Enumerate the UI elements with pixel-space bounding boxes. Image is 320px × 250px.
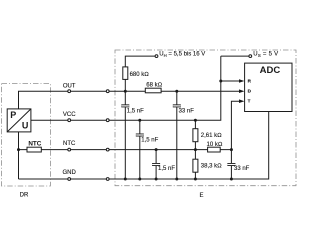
junction dots GND — [124, 178, 127, 181]
capacitor C5 33nF — [227, 164, 235, 166]
svg-text:10 kΩ: 10 kΩ — [207, 142, 223, 148]
svg-text:38,3 kΩ: 38,3 kΩ — [201, 164, 222, 170]
connector circle OUT-b — [106, 90, 109, 93]
connector circle NTC-b — [106, 148, 109, 151]
junction dots OUT — [124, 90, 127, 93]
svg-text:E: E — [199, 193, 203, 199]
wire T feed — [231, 101, 239, 179]
connector circle VCC-b — [106, 119, 109, 122]
resistor 680k — [123, 67, 128, 80]
wire cap chain 3 — [155, 150, 157, 179]
svg-text:GND: GND — [63, 170, 77, 176]
capacitor C3 1.5nF — [152, 164, 160, 166]
svg-text:NTC: NTC — [28, 141, 41, 148]
resistor 2.61k — [193, 129, 198, 142]
svg-text:680 kΩ: 680 kΩ — [130, 72, 150, 78]
svg-text:1,5 nF: 1,5 nF — [158, 166, 175, 172]
wire cap chain 1 — [124, 91, 126, 179]
wire UH supply — [125, 56, 155, 91]
capacitor C2 1.5nF — [136, 134, 144, 136]
svg-text:33 nF: 33 nF — [234, 166, 250, 172]
wire US supply to R — [221, 56, 249, 81]
DR box (dashed enclosure, sensor) — [2, 84, 51, 186]
svg-text:1,5 nF: 1,5 nF — [141, 138, 158, 144]
wire cap chain 2 — [139, 120, 141, 179]
svg-text:2,61 kΩ: 2,61 kΩ — [201, 133, 222, 139]
E box (dashed enclosure, ECU) — [115, 50, 296, 186]
svg-text:ADC: ADC — [260, 65, 281, 76]
arrow into T — [239, 99, 244, 103]
svg-text:NTC: NTC — [63, 141, 76, 147]
svg-text:1,5 nF: 1,5 nF — [127, 108, 144, 114]
wire cap chain 4 — [176, 91, 178, 179]
resistor NTC — [27, 147, 41, 152]
connector circle NTC-a — [68, 148, 71, 151]
connector circle GND-a — [68, 178, 71, 181]
svg-text:UH = 5,5 bis 16 V: UH = 5,5 bis 16 V — [159, 52, 205, 58]
wire GND line — [19, 112, 269, 180]
terminal circle US — [249, 55, 252, 58]
svg-text:VCC: VCC — [63, 112, 76, 118]
arrow into D — [239, 89, 244, 93]
terminal circle UH — [155, 55, 158, 58]
resistor 10k — [208, 147, 221, 152]
arrow into R — [239, 79, 244, 83]
wire divider chain — [194, 120, 196, 179]
svg-text:T: T — [248, 99, 251, 104]
junction dots NTC — [17, 148, 20, 151]
ADC box U1 — [245, 63, 292, 111]
svg-text:OUT: OUT — [63, 84, 76, 90]
junction dots VCC — [138, 119, 141, 122]
capacitor C1 1.5nF — [121, 105, 129, 107]
svg-text:US = 5 V: US = 5 V — [253, 52, 278, 58]
wire NTC line — [19, 132, 232, 179]
svg-text:DR: DR — [20, 193, 29, 199]
junction dot R line — [219, 80, 222, 83]
svg-text:68 kΩ: 68 kΩ — [146, 82, 162, 88]
svg-text:33 nF: 33 nF — [179, 108, 195, 114]
wire OUT line — [19, 91, 240, 109]
transducer P/U box — [7, 109, 31, 132]
svg-text:U: U — [22, 120, 29, 130]
resistor 68k — [145, 88, 161, 93]
resistor 38.3k — [193, 159, 198, 172]
connector circle OUT-a — [68, 90, 71, 93]
connector circle VCC-a — [68, 119, 71, 122]
capacitor C4 33nF — [173, 105, 181, 107]
svg-text:P: P — [10, 110, 16, 120]
connector circle GND-b — [106, 178, 109, 181]
wire VCC line — [31, 56, 221, 120]
